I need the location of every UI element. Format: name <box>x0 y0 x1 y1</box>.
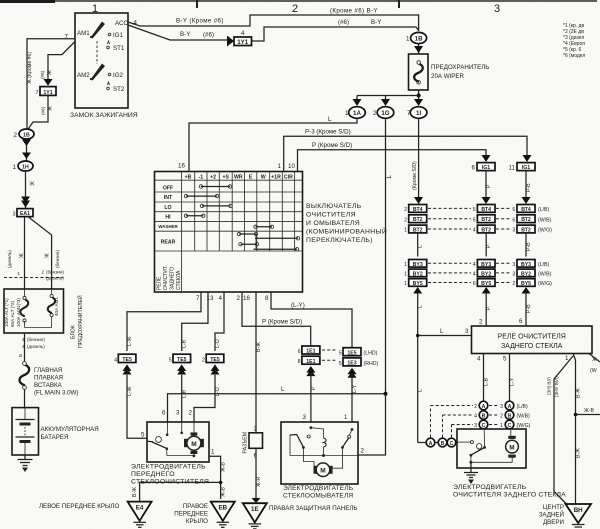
wire L horizontal (front motor pin6 to 1G junction) <box>168 386 388 422</box>
svg-text:B-Y: B-Y <box>180 31 190 38</box>
svg-text:ПРАВОЕ: ПРАВОЕ <box>183 503 208 510</box>
connector EA1 <box>13 209 33 218</box>
dashed mating links A-A B-B C-C <box>489 406 499 425</box>
ignition switch terminal ACC <box>115 20 138 28</box>
ignition switch terminal ST2 <box>107 82 125 93</box>
svg-text:6: 6 <box>473 281 476 287</box>
svg-text:(W/B): (W/B) <box>538 217 552 223</box>
svg-text:БАТАРЕЯ: БАТАРЕЯ <box>41 434 69 441</box>
svg-text:ЭЛЕКТРОДВИГАТЕЛЬ: ЭЛЕКТРОДВИГАТЕЛЬ <box>283 485 353 492</box>
ground triangle BH (rear door center) <box>539 504 591 527</box>
wire W (#6) branch to connector 1Y1 left <box>40 42 75 86</box>
svg-text:CIR: CIR <box>284 174 293 180</box>
svg-text:1: 1 <box>13 164 17 171</box>
svg-text:(RHD): (RHD) <box>364 361 379 367</box>
svg-text:ВТ2: ВТ2 <box>413 228 423 234</box>
wire front motor pin1 to grounds <box>132 456 227 501</box>
arrow 1B to fuse <box>414 44 423 54</box>
wire P from BY5 col2 down to relay pin 2 <box>479 293 492 326</box>
arrow 1H to EA1 <box>21 171 35 208</box>
connector 6 IG1 <box>472 163 495 172</box>
svg-text:Р: Р <box>311 386 317 390</box>
connector 11 IG1 <box>509 163 535 172</box>
wire Zh-R from RAZEM to ground 1E <box>252 448 263 503</box>
svg-text:(Кроме #6) B-Y: (Кроме #6) B-Y <box>330 7 378 14</box>
svg-text:L-В: L-В <box>182 339 188 348</box>
svg-text:L-В: L-В <box>182 389 188 398</box>
svg-text:1: 1 <box>404 228 407 234</box>
svg-text:3: 3 <box>512 262 515 268</box>
svg-text:В-Ж: В-Ж <box>132 487 138 497</box>
wire fuse to bus with junction <box>357 90 421 98</box>
svg-text:АМ2: АМ2 <box>77 72 90 79</box>
svg-text:Ж: Ж <box>47 70 53 75</box>
svg-text:В-Ж: В-Ж <box>256 342 262 352</box>
svg-text:СТЕКЛА: СТЕКЛА <box>176 270 182 290</box>
battery <box>12 408 99 455</box>
svg-text:1Y1: 1Y1 <box>237 39 249 46</box>
svg-text:3: 3 <box>494 3 500 15</box>
svg-text:4: 4 <box>477 356 481 363</box>
svg-text:РАЗЪЕМ: РАЗЪЕМ <box>243 432 249 454</box>
svg-text:Б: Б <box>18 354 23 357</box>
svg-text:1Е1: 1Е1 <box>306 359 315 365</box>
ignition switch terminal AM1 <box>65 22 105 41</box>
svg-text:1: 1 <box>404 262 407 268</box>
svg-text:(Кроме S/D): (Кроме S/D) <box>412 161 418 190</box>
svg-text:2: 2 <box>404 207 407 213</box>
svg-text:ЛЕВОЕ ПЕРЕДНЕЕ КРЫЛО: ЛЕВОЕ ПЕРЕДНЕЕ КРЫЛО <box>39 503 119 510</box>
svg-text:ПЕРЕДНЕЕ: ПЕРЕДНЕЕ <box>174 511 208 518</box>
connector oval 1I <box>407 107 427 119</box>
pigtail circle A <box>426 438 435 447</box>
wire P from 1I down to BT4 <box>412 118 423 204</box>
wire pin7 to connector 4 TE5 <box>127 292 201 351</box>
wires BT to BY col1 L <box>418 233 424 257</box>
svg-text:LO: LO <box>164 205 171 211</box>
wires EA1 down to fuse block (petrol/diesel) <box>7 217 60 289</box>
svg-text:(дизель): (дизель) <box>27 344 45 349</box>
connector 5 1E3 (RHD) <box>339 358 379 367</box>
svg-text:ВН: ВН <box>574 507 583 514</box>
wire L-Y from switch pin8 to connector 1E5 <box>271 292 352 348</box>
svg-text:ТЕ5: ТЕ5 <box>122 357 132 363</box>
svg-text:W: W <box>261 174 266 180</box>
svg-text:1Н: 1Н <box>22 164 29 170</box>
svg-text:B-Y: B-Y <box>371 19 381 26</box>
svg-text:ВТ2: ВТ2 <box>413 217 423 223</box>
svg-text:20А WIPER: 20А WIPER <box>431 73 465 80</box>
svg-text:-1: -1 <box>198 174 203 180</box>
wire below fuse block <box>18 333 45 361</box>
svg-text:60А ALT (*2): 60А ALT (*2) <box>10 300 15 327</box>
fuse block box <box>4 289 84 348</box>
rear motor ground <box>464 462 478 484</box>
svg-text:2: 2 <box>361 448 365 455</box>
wire P washer pin3 up <box>303 373 317 422</box>
svg-text:L: L <box>440 328 444 335</box>
connector 1Y1 (left) <box>36 87 56 96</box>
svg-text:1: 1 <box>404 272 407 278</box>
relay pin 1 wires to grounds <box>547 354 600 506</box>
svg-text:1: 1 <box>500 423 503 429</box>
svg-text:2: 2 <box>14 132 18 139</box>
svg-text:5: 5 <box>339 361 342 367</box>
arrows up into BY5 bottoms <box>413 287 530 294</box>
HI contact bar <box>184 214 205 217</box>
svg-text:ВY2: ВY2 <box>521 271 531 277</box>
svg-text:1I: 1I <box>416 110 421 117</box>
svg-text:4: 4 <box>114 358 117 364</box>
ignition switch terminal AM2 <box>77 64 105 81</box>
svg-text:3: 3 <box>465 328 469 335</box>
svg-text:ST2: ST2 <box>113 86 125 93</box>
svg-text:B-Y (Кроме #6): B-Y (Кроме #6) <box>176 18 224 25</box>
svg-text:3: 3 <box>13 212 16 218</box>
svg-text:ЗАМОК ЗАЖИГАНИЯ: ЗАМОК ЗАЖИГАНИЯ <box>70 112 138 119</box>
svg-text:С: С <box>450 441 454 447</box>
svg-text:В: В <box>508 413 512 419</box>
svg-text:В-Ж: В-Ж <box>576 388 582 398</box>
arrows up into 1E1/1E3 bottoms <box>306 366 356 378</box>
svg-text:(дизель): (дизель) <box>7 250 12 268</box>
svg-text:(LHD): (LHD) <box>364 351 378 357</box>
svg-text:INT: INT <box>164 195 173 201</box>
svg-text:6: 6 <box>472 165 476 172</box>
svg-text:4: 4 <box>241 30 245 37</box>
svg-text:2: 2 <box>41 270 44 275</box>
rear connector circles column1 A B C <box>474 401 488 429</box>
svg-text:(L-Y): (L-Y) <box>291 302 305 309</box>
connector 8 1E1 <box>298 350 336 365</box>
svg-text:3: 3 <box>512 272 515 278</box>
svg-text:6: 6 <box>512 217 515 223</box>
svg-text:3: 3 <box>474 423 477 429</box>
ignition switch terminal IG2 <box>108 72 123 79</box>
svg-text:+1R: +1R <box>271 174 281 180</box>
svg-text:1А: 1А <box>353 110 361 117</box>
svg-text:(L/B): (L/B) <box>517 404 529 410</box>
wire P-3 from switch +1R pin 1 to 11 IG1 <box>278 129 532 172</box>
svg-text:7: 7 <box>196 295 200 302</box>
svg-text:Е: Е <box>249 174 253 180</box>
svg-text:1Е5: 1Е5 <box>347 350 356 356</box>
svg-text:8: 8 <box>298 359 301 365</box>
svg-text:Р-В: Р-В <box>526 304 532 313</box>
svg-text:ВТ4: ВТ4 <box>413 207 423 213</box>
svg-text:ЗАДНЕГО: ЗАДНЕГО <box>170 267 176 290</box>
ignition switch terminal IG1 <box>108 32 123 39</box>
svg-text:1: 1 <box>211 449 215 456</box>
arrow into 1Y1 <box>227 36 234 47</box>
svg-text:Ж: Ж <box>45 253 51 258</box>
svg-text:БЛОК: БЛОК <box>71 325 77 339</box>
svg-text:7: 7 <box>407 110 411 117</box>
svg-text:(#6): (#6) <box>338 19 349 26</box>
svg-text:ПЕРЕКЛЮЧАТЕЛЬ): ПЕРЕКЛЮЧАТЕЛЬ) <box>306 237 373 244</box>
svg-text:В-Ж: В-Ж <box>576 448 582 458</box>
wire P-B from 11 IG1 to BT4 col3 <box>522 171 533 204</box>
svg-text:ГЛАВНАЯ: ГЛАВНАЯ <box>34 367 62 374</box>
ground triangle 1E (right kick panel) <box>243 503 358 529</box>
svg-text:3: 3 <box>512 228 515 234</box>
svg-text:КРЫЛО: КРЫЛО <box>186 518 208 525</box>
svg-text:АККУМУЛЯТОРНАЯ: АККУМУЛЯТОРНАЯ <box>41 426 99 433</box>
svg-text:IG1: IG1 <box>522 165 530 171</box>
svg-text:*6 (модел: *6 (модел <box>563 53 585 59</box>
wire pin13 to connector 5 TE5 <box>182 292 208 351</box>
wire P-B from BY5 col3 down to relay pin 6 <box>519 293 532 326</box>
svg-text:L-О: L-О <box>215 339 221 348</box>
wire P from 6 IG1 to BT4 col2 <box>482 171 493 204</box>
svg-text:ПЕРЕДНЕГО: ПЕРЕДНЕГО <box>131 471 175 478</box>
connector oval 1B (top right) <box>406 32 427 43</box>
svg-text:2: 2 <box>512 281 515 287</box>
svg-text:ТЕ5: ТЕ5 <box>210 357 220 363</box>
svg-text:Р: Р <box>486 306 492 310</box>
svg-text:5: 5 <box>141 432 145 439</box>
svg-text:ЭЛЕКТРОДВИГАТЕЛЬ: ЭЛЕКТРОДВИГАТЕЛЬ <box>453 484 527 491</box>
svg-text:Ж-В: Ж-В <box>221 486 227 497</box>
svg-text:L-О: L-О <box>215 387 221 396</box>
svg-text:РЕЛЕ ОЧИСТИТЕЛЯ: РЕЛЕ ОЧИСТИТЕЛЯ <box>498 334 566 341</box>
svg-text:А: А <box>429 441 433 447</box>
connector BY5 row (pins 1-6-2) <box>404 279 552 287</box>
svg-text:L: L <box>418 245 424 248</box>
connector 5 1E5 (LHD) <box>339 348 378 357</box>
washer motor internal contacts and coil <box>290 426 358 468</box>
svg-text:А: А <box>482 404 486 410</box>
wire B-Y (except #6) from ACC pin 4 to 1B <box>128 7 419 31</box>
ignition switch movable contact link (dashed) <box>96 41 98 64</box>
svg-text:(КОМБИНИРОВАННЫЙ: (КОМБИНИРОВАННЫЙ <box>306 227 387 236</box>
connector 1Y1 (right) <box>234 30 252 46</box>
pigtail circle B <box>438 438 447 447</box>
svg-text:(#6): (#6) <box>40 70 45 79</box>
svg-text:(FL MAIN 3.0W): (FL MAIN 3.0W) <box>34 390 78 397</box>
main fusible link FL MAIN 3.0W <box>20 362 79 408</box>
svg-text:М: М <box>191 441 196 448</box>
wire W from AM1 pin7 down left side <box>27 39 75 131</box>
svg-text:ОЧИСТИТЕЛЯ: ОЧИСТИТЕЛЯ <box>306 212 356 219</box>
svg-text:L-Y: L-Y <box>510 377 516 386</box>
arrow 1B to 1H <box>22 139 31 161</box>
OFF contact bar <box>199 185 231 188</box>
svg-text:4: 4 <box>474 414 477 420</box>
svg-text:Р-3 (Кроме S/D): Р-3 (Кроме S/D) <box>305 129 351 136</box>
svg-text:2: 2 <box>373 110 377 117</box>
svg-text:ВТ4: ВТ4 <box>521 207 531 213</box>
switch column headers <box>185 174 294 180</box>
svg-text:Ж-R: Ж-R <box>256 476 262 487</box>
svg-text:ВТ2: ВТ2 <box>481 217 491 223</box>
wire from 1Y1 to 1B <box>252 19 419 41</box>
connector oval 1G <box>373 107 394 119</box>
fuse block boundary dashed line <box>4 270 64 281</box>
svg-text:L: L <box>328 116 332 123</box>
battery ground <box>18 455 33 472</box>
svg-text:ОЧИСТИТЕЛЯ ЗАДНЕГО СТЕКЛА: ОЧИСТИТЕЛЯ ЗАДНЕГО СТЕКЛА <box>453 492 566 499</box>
fuse 40A AM1 inside block <box>25 289 60 328</box>
drop to 1G with arrow <box>381 96 390 107</box>
svg-text:2: 2 <box>202 358 205 364</box>
svg-text:(дизель): (дизель) <box>46 276 64 281</box>
rear wiper motor box <box>453 429 566 499</box>
WASHER contact bar <box>254 225 274 228</box>
wire L from BY5 down to rear relay pin3 and rear motor <box>416 293 472 443</box>
svg-text:16: 16 <box>243 295 250 302</box>
svg-text:3: 3 <box>176 410 180 417</box>
switch name label <box>306 203 387 244</box>
svg-text:L-Ж: L-Ж <box>127 386 133 396</box>
relay pin 4 wire down to connector A circle col1 <box>477 354 490 402</box>
svg-text:7: 7 <box>65 34 69 41</box>
svg-text:Р-В: Р-В <box>526 242 532 251</box>
svg-text:2: 2 <box>404 217 407 223</box>
rotated label rear washer relay inside switch <box>157 265 183 290</box>
svg-text:В: В <box>441 441 445 447</box>
switch bottom pin labels <box>196 295 269 302</box>
ground triangle EB (right front fender) <box>174 502 235 528</box>
svg-text:100А АМ1(*3): 100А АМ1(*3) <box>16 298 21 327</box>
svg-text:ВТ2: ВТ2 <box>521 228 531 234</box>
connector 5 TE5 <box>169 354 191 374</box>
rear motor M <box>506 429 519 458</box>
svg-text:1: 1 <box>17 271 20 276</box>
svg-text:1: 1 <box>345 110 349 117</box>
switch row labels <box>158 185 178 245</box>
svg-text:1: 1 <box>278 163 282 170</box>
svg-text:(L/B): (L/B) <box>538 262 550 268</box>
svg-text:7: 7 <box>36 90 39 96</box>
svg-text:6: 6 <box>162 410 166 417</box>
svg-text:ВY2: ВY2 <box>413 271 423 277</box>
svg-text:(W/G): (W/G) <box>538 281 552 287</box>
pigtail circle C <box>447 438 456 447</box>
svg-text:REAR: REAR <box>161 240 176 246</box>
combination wiper/washer switch box <box>155 172 303 293</box>
washer motor M <box>314 463 333 477</box>
svg-text:С: С <box>508 423 512 429</box>
svg-text:М: М <box>320 468 325 475</box>
rear connector circles column2 A B C <box>500 401 530 429</box>
connector RAZEM box <box>243 426 263 460</box>
svg-text:11: 11 <box>509 165 516 172</box>
svg-text:3: 3 <box>500 404 503 410</box>
svg-text:(ЗН) В/Л: (ЗН) В/Л <box>547 377 552 395</box>
svg-text:ОЧИСТИТ.: ОЧИСТИТ. <box>163 265 169 290</box>
svg-text:(W/B): (W/B) <box>517 414 531 420</box>
ignition switch terminal ST1 <box>107 41 125 52</box>
svg-text:Ж: Ж <box>30 182 35 188</box>
svg-text:5: 5 <box>473 217 476 223</box>
svg-text:(бензин): (бензин) <box>55 250 60 268</box>
svg-text:5: 5 <box>503 356 507 363</box>
svg-text:ВY3: ВY3 <box>481 262 491 268</box>
svg-text:1Y1: 1Y1 <box>43 90 52 96</box>
wire B-Y (#6) from ACC to connector 1Y1 <box>128 25 228 40</box>
svg-text:1Е1: 1Е1 <box>306 349 315 355</box>
svg-text:ВY5: ВY5 <box>521 281 531 287</box>
svg-text:ВТ4: ВТ4 <box>481 207 491 213</box>
wire B-Zh from switch pin16 down to connector block <box>256 292 262 433</box>
svg-text:ЗАДНЕЙ: ЗАДНЕЙ <box>539 511 564 519</box>
svg-text:ЕВ: ЕВ <box>218 505 227 512</box>
svg-text:5: 5 <box>339 351 342 357</box>
connector BT2 row (pins 2-5-6) <box>404 215 551 224</box>
svg-text:+2: +2 <box>210 174 216 180</box>
svg-text:L-В: L-В <box>484 377 490 386</box>
top border frame <box>0 0 597 8</box>
svg-text:WR: WR <box>234 174 243 180</box>
fuse 100A ALT inside block <box>4 289 28 328</box>
svg-text:1B: 1B <box>415 36 423 43</box>
svg-text:1G: 1G <box>381 110 389 117</box>
wire L-Y washer pin1 up <box>344 375 358 423</box>
connector oval 1B (left) <box>14 129 34 139</box>
svg-text:4: 4 <box>219 295 223 302</box>
svg-text:Ж-: Ж- <box>592 357 599 363</box>
svg-text:ПРЕДОХРАНИТЕЛЕЙ: ПРЕДОХРАНИТЕЛЕЙ <box>76 295 84 348</box>
svg-text:Р: Р <box>486 184 492 188</box>
svg-text:IG2: IG2 <box>113 72 124 79</box>
svg-text:4: 4 <box>473 262 476 268</box>
svg-text:2: 2 <box>500 414 503 420</box>
svg-text:WASHER: WASHER <box>158 224 178 229</box>
svg-text:(бензин): (бензин) <box>46 270 64 275</box>
svg-text:40А АМ1: 40А АМ1 <box>54 297 59 316</box>
ground triangle E4 (left front fender) <box>39 502 152 528</box>
svg-text:ТЕ5: ТЕ5 <box>177 357 187 363</box>
front motor M <box>184 422 204 454</box>
LO contact bar <box>200 204 232 207</box>
connector BT4 row (pins 2-5-6) <box>404 205 549 214</box>
svg-text:1Е: 1Е <box>251 506 259 513</box>
svg-text:Ж-В: Ж-В <box>584 408 595 414</box>
washer motor box <box>281 422 358 500</box>
wire TE5-2 down to front motor pin 2 <box>194 375 221 422</box>
svg-text:Р-В: Р-В <box>526 183 532 192</box>
svg-text:1: 1 <box>404 281 407 287</box>
svg-text:(#6): (#6) <box>203 32 214 39</box>
ignition switch SW1 box <box>70 13 138 119</box>
connector 6 1E1 <box>298 346 320 355</box>
svg-text:(W/B): (W/B) <box>538 272 552 278</box>
front motor pins labels <box>141 410 215 456</box>
svg-text:Р (Кроме S/D): Р (Кроме S/D) <box>312 142 352 149</box>
INT contact bar <box>184 194 218 197</box>
svg-text:Ж: Ж <box>48 106 54 111</box>
svg-text:Е4: Е4 <box>136 505 144 512</box>
connector oval 1A <box>345 107 365 119</box>
svg-text:ДВЕРИ: ДВЕРИ <box>543 519 564 526</box>
svg-text:8: 8 <box>265 295 269 302</box>
front wiper motor box <box>131 422 209 486</box>
wires BT to BY col3 P-B <box>526 233 532 257</box>
svg-text:(W/G): (W/G) <box>517 423 531 429</box>
wire P from switch CIR pin 10 to 6 IG1 <box>288 142 491 172</box>
svg-text:2: 2 <box>237 295 241 302</box>
svg-text:ПРАВАЯ ЗАЩИТНАЯ ПАНЕЛЬ: ПРАВАЯ ЗАЩИТНАЯ ПАНЕЛЬ <box>269 505 358 512</box>
svg-text:+В: +В <box>185 174 192 180</box>
svg-text:1: 1 <box>406 36 410 43</box>
svg-text:В: В <box>482 413 486 419</box>
svg-text:Р (Кроме S/D): Р (Кроме S/D) <box>262 319 302 326</box>
svg-text:2: 2 <box>479 319 483 326</box>
svg-text:4: 4 <box>473 272 476 278</box>
wire L branch down to washer motor pin 2 <box>358 394 386 455</box>
svg-text:2: 2 <box>292 3 298 15</box>
